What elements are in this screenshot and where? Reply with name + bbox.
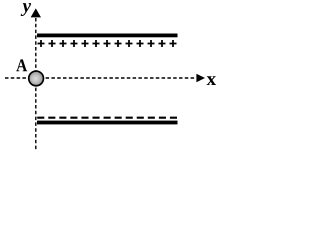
x-axis dashed line [5, 77, 196, 79]
bottom plate [37, 121, 178, 125]
y-axis arrowhead [31, 8, 41, 17]
plus charges row [38, 40, 177, 47]
label x [207, 76, 216, 85]
top plate [37, 34, 178, 38]
label y [21, 3, 31, 16]
label A [16, 59, 27, 71]
charged ball A [29, 71, 44, 86]
minus charges row [37, 117, 177, 119]
y-axis dashed line [35, 18, 37, 150]
x-axis arrowhead [196, 74, 205, 83]
